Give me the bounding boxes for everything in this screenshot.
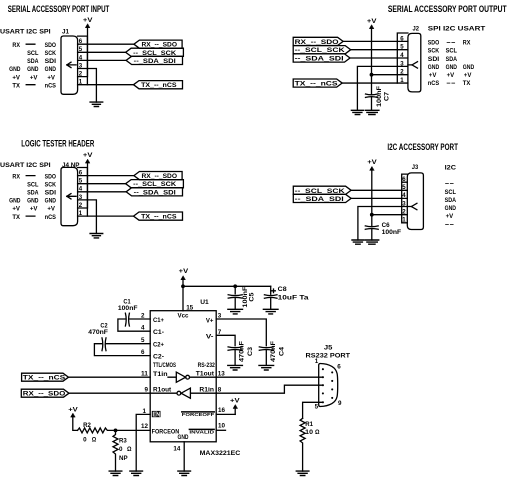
power +V (J1) (83, 17, 93, 24)
svg-text:5: 5 (400, 44, 404, 51)
wire V+ to C4 (216, 319, 266, 346)
svg-text:GND: GND (45, 66, 56, 73)
ground (C7) (365, 110, 379, 114)
svg-text:LOGIC TESTER HEADER: LOGIC TESTER HEADER (21, 139, 94, 149)
power +V (U1) (179, 268, 189, 275)
pin 7 V- (206, 334, 214, 341)
svg-text:+V: +V (83, 17, 93, 24)
svg-text:+V: +V (68, 406, 78, 413)
svg-text:C1-: C1- (153, 329, 164, 336)
wire T1out to DB9 pin2 (216, 376, 323, 378)
T1 buffer triangle (168, 372, 216, 382)
svg-text:--_SDA_SDI: --_SDA_SDI (134, 189, 176, 196)
svg-text:5: 5 (402, 184, 406, 191)
svg-text:6: 6 (400, 35, 404, 42)
svg-text:TX: TX (12, 214, 20, 221)
svg-text:470nF: 470nF (238, 341, 245, 362)
svg-text:U1: U1 (200, 299, 209, 306)
svg-text:4: 4 (400, 52, 404, 59)
svg-text:RX: RX (12, 42, 20, 49)
svg-text:MAX3221EC: MAX3221EC (200, 450, 241, 457)
capacitor C3 (228, 347, 242, 366)
svg-text:TX_--_nCS: TX_--_nCS (141, 82, 177, 89)
svg-text:RX: RX (463, 40, 471, 47)
svg-text:GND: GND (446, 64, 457, 71)
svg-text:RS232 PORT: RS232 PORT (306, 352, 351, 359)
svg-text:GND: GND (27, 66, 38, 73)
header label USART I2C SPI (J4) (0, 162, 51, 169)
IC value MAX3221EC (200, 450, 241, 457)
svg-text:1: 1 (315, 358, 319, 365)
svg-text:3: 3 (402, 200, 406, 207)
J1 pin numbers (79, 38, 83, 86)
svg-text:GND: GND (428, 64, 439, 71)
wire J4 pin5 to flag (87, 183, 125, 185)
pin 14 GND (178, 434, 189, 441)
svg-text:+V: +V (12, 206, 20, 213)
pin 8 R1in (199, 387, 214, 394)
connector J1 body (61, 36, 78, 94)
svg-text:--: -- (445, 221, 455, 228)
net flag --_SDA_SDI (J2) (293, 54, 350, 62)
svg-text:USART I2C SPI: USART I2C SPI (0, 162, 51, 169)
connector J5 refdes (324, 345, 333, 352)
svg-text:4: 4 (402, 192, 406, 199)
wire J3 pin3 to ground (358, 207, 402, 241)
svg-text:+V: +V (30, 74, 38, 81)
connector J4 pin boxes (78, 168, 88, 217)
junction dot (C5 tap) (233, 284, 237, 288)
svg-text:GND: GND (45, 198, 56, 205)
svg-text:--_SDA_SDI: --_SDA_SDI (134, 58, 176, 65)
svg-text:100nF: 100nF (118, 305, 138, 312)
IC U1 refdes (200, 299, 209, 306)
connector J2 body (408, 33, 421, 92)
power +V (J2) (367, 18, 377, 25)
wire J2 flag3 to pin4 (350, 57, 397, 59)
svg-text:nCS: nCS (428, 80, 440, 87)
wire J2 pin2 to +V rail (372, 74, 398, 76)
svg-text:2: 2 (79, 71, 83, 78)
svg-text:6: 6 (79, 170, 83, 177)
svg-text:5: 5 (79, 178, 83, 185)
ground (J4) (90, 234, 103, 238)
J4 pin numbers (79, 170, 83, 218)
svg-text:--: -- (446, 80, 456, 87)
capacitor C4 (259, 347, 273, 366)
svg-text:SDO: SDO (45, 42, 56, 49)
wire R1in jog to DB9 pin3 (216, 385, 323, 393)
svg-text:R3: R3 (119, 438, 127, 445)
svg-text:1: 1 (402, 217, 406, 224)
net flag --_SCL_SCK (J4) (126, 180, 184, 188)
ground (C6) (365, 240, 378, 244)
svg-text:FORCEON: FORCEON (152, 428, 180, 435)
wire J2 pin3 to ground (357, 66, 397, 110)
pin 15 Vcc label (186, 304, 193, 311)
DB9 connector J5 outline (319, 364, 338, 407)
power +V (J4) (83, 152, 93, 159)
junction dot (J3 +V) (370, 213, 374, 217)
pin 6 C2- (141, 349, 145, 356)
svg-text:SERIAL ACCESSORY PORT OUTPUT: SERIAL ACCESSORY PORT OUTPUT (388, 4, 507, 14)
svg-text:10: 10 (305, 429, 313, 436)
J2 right pin labels (428, 40, 474, 88)
power +V (FORCEOFF) (230, 398, 240, 405)
wire RX flag to pin9 (69, 392, 150, 394)
wire J1 pin5 to flag (87, 51, 125, 53)
svg-text:J1: J1 (62, 29, 69, 36)
svg-text:C8: C8 (278, 286, 288, 293)
svg-text:3: 3 (79, 194, 83, 201)
net flag --_SDA_SDI (J4) (126, 188, 182, 196)
svg-text:9: 9 (338, 400, 342, 407)
svg-text:SDI: SDI (45, 58, 56, 65)
svg-text:I2C ACCESSORY PORT: I2C ACCESSORY PORT (387, 142, 458, 152)
svg-text:+V: +V (367, 159, 377, 166)
svg-text:SERIAL ACCESSORY PORT INPUT: SERIAL ACCESSORY PORT INPUT (8, 4, 110, 14)
svg-text:10: 10 (218, 423, 225, 430)
capacitor C6 (365, 226, 378, 240)
svg-text:NP: NP (119, 455, 128, 462)
svg-text:6: 6 (337, 363, 341, 370)
wire EN pin1 to ground (136, 414, 150, 471)
wire J1 pin1 to flag (87, 84, 133, 86)
wire J1 pin4 to flag (87, 59, 126, 61)
wire J3 flag SCL to pin5 (351, 189, 402, 191)
svg-text:TX: TX (463, 80, 471, 87)
svg-text:2: 2 (400, 69, 404, 76)
wire J2 flag4 to pin1 (342, 82, 397, 84)
net flag --_SCL_SCK (J1) (126, 48, 184, 56)
svg-text:+V: +V (47, 74, 55, 81)
R1 inverter triangle (150, 388, 216, 398)
svg-text:C1+: C1+ (153, 317, 164, 324)
wire J2 flag2 to pin5 (351, 49, 398, 51)
svg-text:USART I2C SPI: USART I2C SPI (0, 29, 51, 36)
wire DB9 pin5 to R1 (303, 402, 323, 418)
pin 10 INVALID (189, 429, 215, 434)
pin 13 T1out (196, 371, 215, 378)
J4 row dashes (26, 176, 35, 217)
wire INVALID stub (216, 429, 225, 431)
J3 right pin labels (445, 181, 456, 229)
svg-text:J2: J2 (413, 26, 420, 33)
capacitor C8 polarized (264, 286, 277, 309)
svg-text:R2: R2 (83, 422, 91, 429)
svg-text:10uF Ta: 10uF Ta (278, 295, 309, 302)
svg-text:GND: GND (463, 64, 474, 71)
svg-text:C7: C7 (384, 92, 391, 101)
svg-text:15: 15 (186, 304, 193, 311)
connector J3 body (407, 173, 423, 230)
connector J1 refdes (62, 29, 69, 36)
svg-text:GND: GND (445, 205, 456, 212)
svg-text:SCK: SCK (45, 50, 56, 57)
pin 16 FORCEOFF (218, 407, 225, 414)
svg-text:+V: +V (367, 18, 377, 25)
svg-text:+V: +V (464, 72, 472, 79)
junction dot (Vcc rail) (181, 284, 185, 288)
J4 direction arrow (67, 194, 76, 199)
svg-text:C5: C5 (249, 292, 256, 301)
wire C2 loop pin5 pin6 (94, 344, 150, 356)
svg-text:SCL: SCL (445, 189, 456, 196)
svg-text:GND: GND (9, 198, 20, 205)
svg-text:TX_--_nCS: TX_--_nCS (141, 214, 177, 221)
svg-text:0: 0 (119, 446, 123, 453)
svg-text:--_SDA_SDI: --_SDA_SDI (295, 56, 344, 63)
svg-text:0: 0 (83, 437, 87, 444)
svg-text:SCK: SCK (45, 181, 56, 188)
svg-text:3: 3 (400, 60, 404, 67)
junction dot (R2/R3) (114, 429, 118, 433)
svg-text:9: 9 (145, 387, 149, 394)
svg-text:TX: TX (12, 82, 20, 89)
svg-text:+V: +V (83, 152, 93, 159)
svg-text:J5: J5 (324, 345, 333, 352)
wire J4 pin3 to ground (87, 200, 96, 234)
resistor R1 (300, 418, 305, 471)
svg-text:+V: +V (230, 398, 240, 405)
J2 direction arrow (408, 62, 418, 68)
ground (R1) (296, 471, 309, 475)
svg-text:SCK: SCK (428, 48, 439, 55)
wire J3 flag SDA to pin4 (351, 197, 402, 199)
connector J2 pin boxes (397, 33, 408, 83)
net flag --_SCL_SCK (J3) (293, 186, 351, 194)
svg-text:GND: GND (27, 198, 38, 205)
capacitor C2 (88, 323, 108, 336)
svg-text:T1out: T1out (196, 371, 215, 378)
title LOGIC TESTER HEADER (21, 139, 94, 149)
J1 left pin labels (9, 42, 56, 90)
pin 3 V+ (206, 317, 214, 324)
header label SPI I2C USART (428, 26, 486, 33)
svg-text:100nF: 100nF (382, 229, 402, 236)
power +V (R2) (68, 406, 78, 413)
svg-text:SCL: SCL (27, 181, 38, 188)
svg-text:+V: +V (179, 268, 189, 275)
svg-text:C3: C3 (247, 347, 254, 356)
svg-text:C2-: C2- (153, 353, 164, 360)
svg-text:+V: +V (429, 72, 437, 79)
svg-text:RS-232: RS-232 (198, 362, 216, 369)
svg-text:11: 11 (141, 371, 149, 378)
svg-text:SDO: SDO (428, 40, 439, 47)
wire J4 pin4 to flag (87, 191, 126, 193)
power +V (J3) (367, 159, 377, 166)
connector J3 pin boxes (402, 174, 408, 223)
net flag --_SCL_SCK (J2) (293, 46, 351, 54)
wire TX flag to pin11 (69, 376, 151, 378)
svg-text:GND: GND (9, 66, 20, 73)
J3 pin numbers (402, 176, 406, 224)
svg-text:R1: R1 (305, 421, 313, 428)
svg-text:+V: +V (446, 213, 454, 220)
wire V- to C3 (216, 335, 235, 345)
wire J1 pin6 to flag (87, 43, 133, 45)
wire R2 to FORCEON pin12 (116, 429, 151, 431)
pin 5 C2+ (141, 337, 145, 344)
svg-text:4: 4 (79, 186, 83, 193)
DB9 pin numbers (315, 358, 342, 410)
connector J4 body (61, 167, 78, 225)
svg-text:1: 1 (79, 210, 83, 217)
svg-text:C2+: C2+ (153, 342, 164, 349)
wire C1 loop pin2 pin4 (118, 319, 150, 331)
wire FORCEOFF pin16 (216, 413, 235, 415)
svg-text:SPI I2C USART: SPI I2C USART (428, 26, 486, 33)
svg-text:--_SCL_SCK: --_SCL_SCK (295, 47, 345, 54)
DB9 pin dots (322, 368, 333, 403)
ground (C4) (259, 365, 274, 370)
svg-text:100nF: 100nF (376, 86, 383, 107)
IC U1 body (150, 311, 216, 442)
svg-text:SDA: SDA (445, 197, 456, 204)
svg-text:5: 5 (79, 46, 83, 53)
header label USART I2C SPI (0, 29, 51, 36)
svg-text:nCS: nCS (45, 214, 57, 221)
svg-text:SDA: SDA (27, 190, 38, 197)
J4 left pin labels (9, 173, 56, 221)
pin 1 EN inverse label (143, 408, 147, 415)
svg-text:SCL: SCL (27, 50, 38, 57)
svg-text:6: 6 (402, 176, 406, 183)
svg-text:V+: V+ (206, 317, 214, 324)
wire J2 flag1 to pin6 (343, 40, 397, 42)
svg-text:--: -- (446, 40, 456, 47)
svg-text:Vcc: Vcc (178, 313, 189, 320)
svg-text:TX_--_nCS: TX_--_nCS (295, 81, 339, 88)
J2 pin numbers (400, 35, 404, 84)
label RS232 PORT (306, 352, 351, 359)
svg-text:RX_--_SDO: RX_--_SDO (295, 39, 339, 46)
connector J1 pin boxes (78, 36, 88, 85)
connector J3 refdes (412, 164, 419, 171)
svg-text:+V: +V (447, 72, 455, 79)
capacitor C5 (228, 286, 242, 309)
svg-text:4: 4 (79, 54, 83, 61)
svg-text:SDI: SDI (45, 190, 56, 197)
svg-text:12: 12 (141, 423, 148, 430)
resistor R2 (78, 428, 116, 433)
connector J4 refdes (62, 162, 80, 169)
connector J2 refdes (413, 26, 420, 33)
J1 row dashes (26, 44, 35, 84)
svg-text:Ω: Ω (92, 437, 97, 444)
junction dot (J2 +V) (370, 73, 374, 77)
net flag --_SDA_SDI (J3) (293, 194, 351, 202)
ground (C8) (263, 309, 278, 314)
pin 2 C1+ (141, 313, 145, 320)
title SERIAL ACCESSORY PORT INPUT (8, 4, 110, 14)
J1 direction arrow (67, 62, 76, 67)
svg-text:16: 16 (218, 407, 225, 414)
ground (J2 pin3) (351, 110, 363, 114)
svg-text:SDO: SDO (45, 173, 56, 180)
ground (J3 pin3) (352, 240, 364, 244)
svg-text:TTL/CMOS: TTL/CMOS (153, 362, 176, 369)
pin 9 R1out (145, 387, 149, 394)
ground (EN) (130, 471, 143, 475)
svg-text:6: 6 (141, 349, 145, 356)
wire J1 pin3 to ground (87, 69, 96, 103)
svg-text:+V: +V (47, 206, 55, 213)
ground (J1) (90, 102, 103, 106)
svg-text:470nF: 470nF (270, 341, 277, 362)
svg-text:6: 6 (79, 38, 83, 45)
svg-text:--_SDA_SDI: --_SDA_SDI (295, 196, 344, 203)
svg-text:2: 2 (402, 209, 406, 216)
pin 12 FORCEON (141, 423, 148, 430)
svg-text:--: -- (445, 181, 455, 188)
svg-text:SDA: SDA (27, 58, 38, 65)
svg-text:SCL: SCL (446, 48, 457, 55)
wire J3 pin2 to +V (372, 214, 402, 216)
wire J4 pin6 to flag (87, 175, 133, 177)
pin 11 T1in (141, 371, 149, 378)
svg-text:14: 14 (173, 446, 180, 453)
svg-text:C4: C4 (279, 347, 286, 356)
svg-text:Ω: Ω (127, 446, 132, 453)
svg-text:R1in: R1in (199, 387, 214, 394)
title I2C ACCESSORY PORT (387, 142, 458, 152)
header label I2C (445, 165, 456, 172)
section labels TTL/CMOS RS-232 (153, 362, 215, 369)
svg-text:nCS: nCS (45, 82, 57, 89)
svg-text:470nF: 470nF (88, 329, 108, 336)
svg-text:J3: J3 (412, 164, 419, 171)
svg-text:TX_--_nCS: TX_--_nCS (23, 375, 66, 382)
svg-text:2: 2 (141, 313, 145, 320)
svg-text:3: 3 (79, 62, 83, 69)
ground (C5) (228, 309, 243, 314)
pin 4 C1- (141, 325, 145, 332)
ground (C3) (228, 365, 243, 370)
svg-text:T1in: T1in (153, 371, 168, 378)
capacitor C1 (118, 299, 138, 312)
net flag --_SDA_SDI (J1) (126, 56, 182, 64)
ground (R3) (109, 471, 122, 475)
ground (U1 GND) (178, 471, 191, 475)
J3 direction arrow (407, 203, 417, 209)
svg-text:+V: +V (30, 206, 38, 213)
svg-text:1: 1 (400, 77, 404, 84)
svg-text:SDA: SDA (446, 56, 457, 63)
svg-text:SDI: SDI (428, 56, 439, 63)
resistor R3 (113, 430, 118, 471)
wire +V rail (183, 285, 271, 287)
svg-text:2: 2 (79, 202, 83, 209)
svg-text:+V: +V (12, 74, 20, 81)
svg-text:RX_--_SDO: RX_--_SDO (23, 391, 66, 398)
svg-text:5: 5 (315, 403, 319, 410)
svg-text:Ω: Ω (315, 429, 320, 436)
svg-text:4: 4 (141, 325, 145, 332)
capacitor C7 (366, 94, 378, 110)
svg-text:5: 5 (141, 337, 145, 344)
svg-text:RX: RX (12, 173, 20, 180)
wire J4 pin1 to flag (87, 215, 133, 217)
title SERIAL ACCESSORY PORT OUTPUT (388, 4, 507, 14)
svg-text:1: 1 (79, 79, 83, 86)
svg-text:V-: V- (206, 334, 214, 341)
svg-text:GND: GND (178, 434, 189, 441)
svg-text:I2C: I2C (445, 165, 456, 172)
